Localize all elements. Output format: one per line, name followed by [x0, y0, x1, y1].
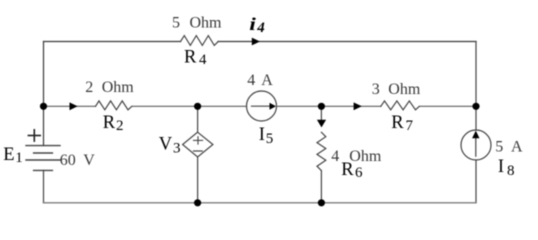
svg-text:3: 3 — [173, 140, 181, 156]
svg-text:4: 4 — [256, 20, 265, 36]
svg-text:I: I — [498, 157, 504, 177]
svg-text:1: 1 — [15, 150, 22, 166]
current source I8 — [461, 130, 491, 160]
node dot left — [40, 103, 47, 110]
battery plus sign — [28, 130, 40, 141]
V3 minus sign — [194, 150, 203, 152]
arrow on middle wire left — [70, 102, 78, 110]
svg-text:6: 6 — [355, 165, 363, 181]
resistor R2 — [96, 101, 132, 110]
wire middle row, R2 to I5 — [132, 105, 247, 107]
wire right vertical lower — [475, 160, 477, 203]
current source I5 — [247, 91, 277, 121]
node dot right — [472, 103, 479, 110]
svg-text:A: A — [511, 139, 523, 156]
svg-text:A: A — [261, 72, 273, 89]
wire R6 branch lower — [320, 171, 322, 203]
svg-text:V: V — [83, 152, 95, 169]
svg-text:R: R — [391, 113, 404, 133]
svg-text:7: 7 — [406, 118, 414, 134]
wire left vertical upper — [43, 42, 45, 146]
svg-text:5: 5 — [172, 15, 180, 32]
battery E1 — [26, 146, 60, 171]
arrow on middle wire right — [354, 102, 362, 110]
svg-text:3: 3 — [372, 81, 380, 98]
svg-text:2: 2 — [85, 79, 93, 96]
arrow on top wire (i4) — [252, 38, 260, 46]
svg-text:4: 4 — [199, 52, 207, 68]
wire left vertical lower — [43, 170, 45, 202]
svg-text:Ohm: Ohm — [349, 148, 382, 165]
I5 internal arrow — [252, 105, 271, 107]
V3 plus sign — [194, 137, 203, 144]
svg-text:4: 4 — [247, 72, 255, 89]
wire V3 branch lower — [197, 157, 199, 203]
resistor R6 — [317, 132, 326, 170]
wire middle row left — [44, 105, 96, 107]
I8 internal arrow — [475, 137, 477, 156]
label i4 — [249, 14, 256, 34]
wire V3 branch upper — [197, 106, 199, 132]
arrow head I5 — [270, 103, 277, 110]
svg-text:E: E — [3, 145, 14, 165]
svg-text:Ohm: Ohm — [190, 15, 223, 32]
svg-text:4: 4 — [331, 148, 339, 165]
svg-text:5: 5 — [266, 131, 274, 147]
dependent source V3 diamond — [183, 132, 213, 157]
wire top-left segment — [44, 41, 181, 43]
arrow down on R6 branch — [317, 120, 326, 128]
node dot A — [194, 103, 201, 110]
wire top-right segment — [218, 41, 476, 43]
wire right vertical upper — [475, 42, 477, 131]
svg-text:I: I — [259, 125, 265, 145]
wire bottom — [44, 202, 477, 204]
node dot bottom A — [194, 199, 201, 206]
svg-text:i: i — [249, 14, 256, 34]
wire R6 branch upper with arrow shaft — [320, 106, 322, 121]
svg-text:R: R — [184, 47, 197, 67]
resistor R7 — [381, 101, 420, 110]
node dot bottom B — [318, 199, 325, 206]
node dot B — [318, 103, 325, 110]
svg-text:8: 8 — [507, 163, 515, 179]
svg-text:5: 5 — [495, 139, 503, 156]
svg-text:Ohm: Ohm — [102, 79, 135, 96]
resistor R4 — [181, 36, 219, 46]
svg-text:R: R — [341, 160, 354, 180]
svg-text:Ohm: Ohm — [388, 81, 421, 98]
wire middle row, I5 to R7 — [277, 105, 381, 107]
wire middle row right — [420, 105, 476, 107]
svg-text:V: V — [159, 134, 173, 154]
svg-text:60: 60 — [60, 152, 76, 169]
svg-text:2: 2 — [116, 118, 124, 134]
svg-text:R: R — [103, 113, 116, 133]
arrow head I8 — [472, 131, 479, 139]
